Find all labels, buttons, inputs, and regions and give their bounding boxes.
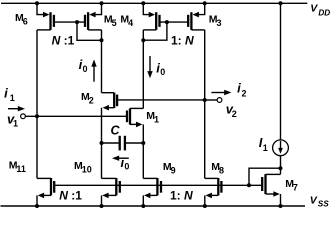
svg-text:2: 2 bbox=[89, 96, 94, 106]
svg-text:V: V bbox=[310, 2, 318, 14]
svg-text:1: 1 bbox=[154, 115, 159, 125]
svg-text:N :1: N :1 bbox=[52, 34, 75, 48]
svg-text:V: V bbox=[310, 194, 318, 206]
svg-text:0: 0 bbox=[160, 67, 165, 77]
svg-text:7: 7 bbox=[293, 183, 298, 193]
svg-text:i: i bbox=[237, 81, 241, 96]
svg-text:5: 5 bbox=[112, 18, 117, 28]
svg-text:9: 9 bbox=[171, 165, 176, 175]
svg-text:1: N: 1: N bbox=[170, 188, 193, 202]
svg-text:11: 11 bbox=[16, 164, 26, 174]
svg-text:3: 3 bbox=[217, 18, 222, 28]
svg-text:8: 8 bbox=[219, 166, 224, 176]
svg-text:C: C bbox=[111, 124, 121, 138]
svg-text:i: i bbox=[4, 86, 8, 101]
svg-text:1: 1 bbox=[10, 93, 15, 103]
svg-text:4: 4 bbox=[128, 18, 133, 28]
svg-text:1: N: 1: N bbox=[171, 34, 194, 48]
svg-text:1: 1 bbox=[263, 143, 268, 153]
svg-text:DD: DD bbox=[318, 8, 330, 17]
svg-text:6: 6 bbox=[23, 17, 28, 27]
svg-text:1: 1 bbox=[13, 119, 18, 129]
svg-text:0: 0 bbox=[124, 162, 129, 172]
svg-text:10: 10 bbox=[82, 165, 92, 175]
svg-text:2: 2 bbox=[232, 109, 237, 119]
svg-text:N :1: N :1 bbox=[59, 188, 82, 202]
svg-text:SS: SS bbox=[318, 200, 329, 209]
svg-text:0: 0 bbox=[83, 64, 88, 74]
svg-text:2: 2 bbox=[242, 88, 247, 98]
